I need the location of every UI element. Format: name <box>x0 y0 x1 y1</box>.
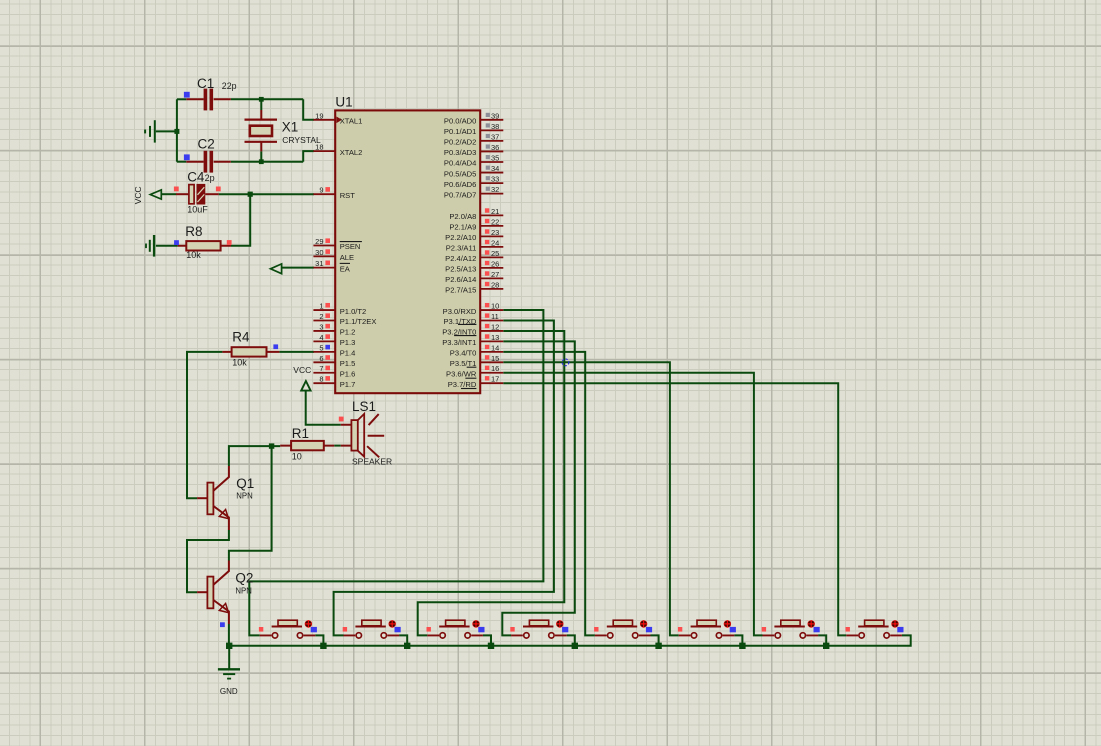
svg-text:30: 30 <box>315 248 323 257</box>
svg-text:P0.0/AD0: P0.0/AD0 <box>444 117 477 126</box>
svg-text:P3.5/T1: P3.5/T1 <box>450 359 477 368</box>
svg-text:22p: 22p <box>222 81 237 91</box>
svg-text:R8: R8 <box>185 224 202 239</box>
svg-text:C1: C1 <box>197 76 214 91</box>
svg-text:SPEAKER: SPEAKER <box>352 457 392 467</box>
svg-text:10k: 10k <box>232 358 247 368</box>
svg-text:29: 29 <box>315 237 323 246</box>
svg-text:6: 6 <box>319 354 323 363</box>
svg-text:X1: X1 <box>282 120 299 135</box>
svg-text:P2.0/A8: P2.0/A8 <box>449 212 476 221</box>
svg-text:14: 14 <box>491 343 499 352</box>
svg-text:28: 28 <box>491 280 499 289</box>
svg-text:39: 39 <box>491 111 499 120</box>
svg-text:Q1: Q1 <box>236 476 254 491</box>
svg-text:16: 16 <box>491 364 499 373</box>
svg-text:P1.6: P1.6 <box>340 369 356 378</box>
svg-text:P1.1/T2EX: P1.1/T2EX <box>340 317 377 326</box>
svg-text:EA: EA <box>340 264 351 273</box>
svg-text:4: 4 <box>319 333 323 342</box>
svg-text:32: 32 <box>491 185 499 194</box>
svg-text:10uF: 10uF <box>187 204 208 214</box>
svg-text:P2.2/A10: P2.2/A10 <box>445 233 476 242</box>
svg-text:11: 11 <box>491 312 499 321</box>
svg-text:35: 35 <box>491 153 499 162</box>
svg-text:9: 9 <box>319 186 323 195</box>
svg-text:Q2: Q2 <box>235 571 253 586</box>
svg-text:P3.0/RXD: P3.0/RXD <box>443 307 477 316</box>
svg-text:NPN: NPN <box>235 587 251 596</box>
svg-text:38: 38 <box>491 122 499 131</box>
svg-text:P2.4/A12: P2.4/A12 <box>445 254 476 263</box>
svg-text:25: 25 <box>491 249 499 258</box>
svg-text:P0.2/AD2: P0.2/AD2 <box>444 138 477 147</box>
svg-text:P0.3/AD3: P0.3/AD3 <box>444 148 477 157</box>
svg-text:P3.3/INT1: P3.3/INT1 <box>442 338 476 347</box>
svg-text:RST: RST <box>340 191 356 200</box>
svg-text:P2.7/A15: P2.7/A15 <box>445 286 476 295</box>
svg-text:VCC: VCC <box>133 186 143 204</box>
svg-text:C4: C4 <box>187 169 205 184</box>
svg-text:ALE: ALE <box>340 253 354 262</box>
svg-text:P0.1/AD1: P0.1/AD1 <box>444 127 477 136</box>
svg-text:5: 5 <box>319 343 323 352</box>
svg-text:19: 19 <box>315 111 323 120</box>
svg-text:3: 3 <box>319 322 323 331</box>
svg-text:27: 27 <box>491 270 499 279</box>
svg-text:10: 10 <box>491 302 499 311</box>
svg-text:26: 26 <box>491 259 499 268</box>
svg-text:31: 31 <box>315 259 323 268</box>
svg-text:21: 21 <box>491 207 499 216</box>
svg-text:P0.6/AD6: P0.6/AD6 <box>444 180 477 189</box>
svg-text:23: 23 <box>491 228 499 237</box>
svg-text:P1.4: P1.4 <box>340 349 356 358</box>
svg-text:P1.5: P1.5 <box>340 359 356 368</box>
svg-text:36: 36 <box>491 143 499 152</box>
svg-text:1: 1 <box>319 302 323 311</box>
svg-text:P2.6/A14: P2.6/A14 <box>445 275 476 284</box>
svg-text:7: 7 <box>319 364 323 373</box>
svg-text:17: 17 <box>491 375 499 384</box>
svg-text:12: 12 <box>491 322 499 331</box>
svg-text:LS1: LS1 <box>352 399 376 414</box>
svg-text:XTAL1: XTAL1 <box>340 117 363 126</box>
svg-text:P1.0/T2: P1.0/T2 <box>340 307 367 316</box>
svg-text:P3.6/WR: P3.6/WR <box>446 369 477 378</box>
svg-text:R4: R4 <box>232 330 250 345</box>
svg-text:33: 33 <box>491 175 499 184</box>
svg-text:XTAL2: XTAL2 <box>340 148 363 157</box>
svg-text:P3.4/T0: P3.4/T0 <box>450 349 477 358</box>
svg-text:C2: C2 <box>198 137 215 152</box>
svg-text:CRYSTAL: CRYSTAL <box>282 135 321 145</box>
svg-text:13: 13 <box>491 333 499 342</box>
svg-text:2: 2 <box>319 312 323 321</box>
svg-text:R1: R1 <box>292 426 309 441</box>
svg-text:P1.3: P1.3 <box>340 338 356 347</box>
svg-text:34: 34 <box>491 164 499 173</box>
svg-text:10: 10 <box>292 452 302 462</box>
svg-text:10k: 10k <box>186 250 201 260</box>
svg-text:P0.4/AD4: P0.4/AD4 <box>444 159 477 168</box>
svg-text:P2.3/A11: P2.3/A11 <box>446 244 477 253</box>
svg-text:8: 8 <box>319 375 323 384</box>
svg-text:PSEN: PSEN <box>340 242 361 251</box>
svg-text:P0.5/AD5: P0.5/AD5 <box>444 169 477 178</box>
svg-text:24: 24 <box>491 238 499 247</box>
svg-text:VCC: VCC <box>293 365 311 375</box>
svg-text:37: 37 <box>491 132 499 141</box>
svg-text:P0.7/AD7: P0.7/AD7 <box>444 190 477 199</box>
svg-text:U1: U1 <box>335 94 352 109</box>
svg-text:2p: 2p <box>205 173 215 183</box>
svg-text:15: 15 <box>491 354 499 363</box>
svg-text:P2.5/A13: P2.5/A13 <box>445 265 476 274</box>
svg-text:P1.7: P1.7 <box>340 380 356 389</box>
svg-text:22: 22 <box>491 217 499 226</box>
svg-text:NPN: NPN <box>236 492 252 501</box>
svg-text:P1.2: P1.2 <box>340 328 356 337</box>
svg-text:GND: GND <box>220 687 238 696</box>
svg-text:P2.1/A9: P2.1/A9 <box>449 223 476 232</box>
svg-text:P3.7/RD: P3.7/RD <box>448 380 477 389</box>
